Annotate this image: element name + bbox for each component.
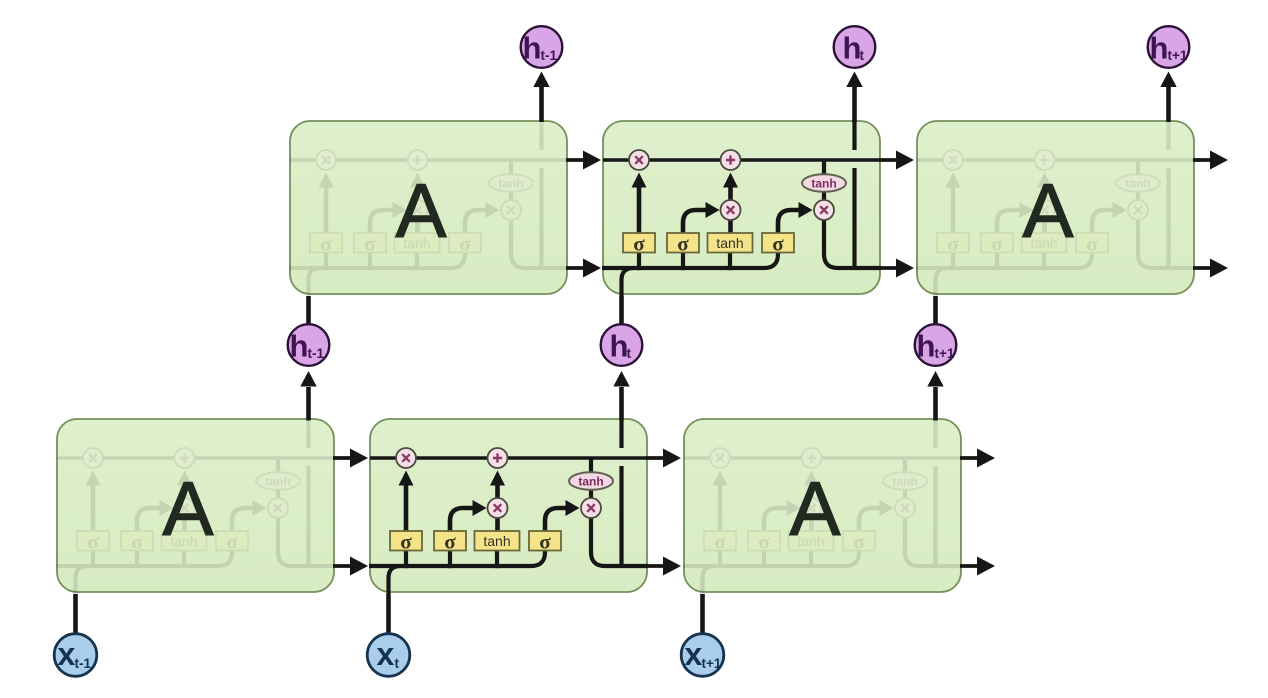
wire cell-state arrow bottom-middle to bottom-right (646, 449, 681, 468)
svg-text:t-1: t-1 (541, 48, 558, 63)
svg-text:x: x (377, 636, 395, 672)
svg-text:t: t (395, 656, 400, 671)
wire hidden-state exit arrow bottom-right (960, 557, 995, 576)
LSTM cell top-middle body (603, 121, 880, 294)
wire output arrow into h t+1 top (1160, 72, 1176, 123)
LSTM cell top-left faded internals (289, 120, 568, 296)
svg-text:t+1: t+1 (1168, 48, 1188, 63)
svg-text:h: h (1150, 31, 1169, 66)
node x t+1 input (681, 634, 724, 677)
svg-text:x: x (58, 636, 76, 672)
LSTM cell top-right body (917, 121, 1194, 294)
node h t middle (601, 324, 643, 366)
svg-text:t: t (627, 346, 632, 361)
LSTM cell bottom-middle body (370, 419, 647, 592)
wire cell-state arrow top-left to top-middle (566, 151, 601, 170)
wire cell-state arrow bottom-left to bottom-middle (333, 449, 368, 468)
wire from h t+1 mid into upper cell (933, 296, 938, 324)
svg-text:x: x (685, 636, 703, 672)
wire input stem from x t (386, 594, 391, 633)
node h t+1 output top (1148, 26, 1190, 68)
LSTM cell bottom-middle internals (369, 418, 648, 594)
svg-text:A: A (1023, 169, 1074, 254)
node x t-1 input (54, 634, 97, 677)
node h t-1 output top (521, 26, 563, 68)
wire hidden-state exit arrow top-right (1193, 259, 1228, 278)
wire cell-state arrow top-middle to top-right (879, 151, 914, 170)
wire hidden-state arrow top-left to top-middle (566, 259, 601, 278)
wire input stem from x t-1 (73, 594, 78, 633)
LSTM cell top-left body (290, 121, 567, 294)
svg-text:h: h (290, 329, 309, 364)
LSTM cell bottom-right faded internals (683, 418, 962, 594)
wire hidden-state arrow top-middle to top-right (879, 259, 914, 278)
wire output arrow into h t top (846, 72, 862, 123)
svg-text:t: t (860, 48, 865, 63)
wire output arrow into h t-1 mid (300, 371, 316, 421)
node h t+1 middle (915, 324, 957, 366)
wire from h t mid into upper cell (619, 296, 624, 324)
node x t input (367, 634, 410, 677)
svg-text:h: h (523, 31, 542, 66)
wire output arrow into h t-1 top (533, 72, 549, 123)
svg-text:h: h (917, 329, 936, 364)
svg-text:t+1: t+1 (935, 346, 955, 361)
wire from h t-1 mid into upper cell (306, 296, 311, 324)
wire hidden-state arrow bottom-left to bottom-middle (333, 557, 368, 576)
svg-text:t+1: t+1 (702, 656, 722, 671)
LSTM cell top-middle internals (602, 120, 881, 296)
wire cell-state exit arrow top-right (1193, 151, 1228, 170)
LSTM cell top-right faded internals (916, 120, 1195, 296)
node h t-1 middle (288, 324, 330, 366)
LSTM cell bottom-right body (684, 419, 961, 592)
svg-text:A: A (396, 169, 447, 254)
wire input stem from x t+1 (700, 594, 705, 633)
wire hidden-state arrow bottom-middle to bottom-right (646, 557, 681, 576)
LSTM cell bottom-left body (57, 419, 334, 592)
wire output arrow into h t+1 mid (927, 371, 943, 421)
svg-text:t-1: t-1 (75, 656, 92, 671)
node h t output top (834, 26, 876, 68)
LSTM cell bottom-left faded internals (56, 418, 335, 594)
svg-text:t-1: t-1 (308, 346, 325, 361)
svg-text:A: A (163, 467, 214, 552)
wire cell-state exit arrow bottom-right (960, 449, 995, 468)
wire output arrow into h t mid (613, 371, 629, 421)
svg-text:A: A (790, 467, 841, 552)
